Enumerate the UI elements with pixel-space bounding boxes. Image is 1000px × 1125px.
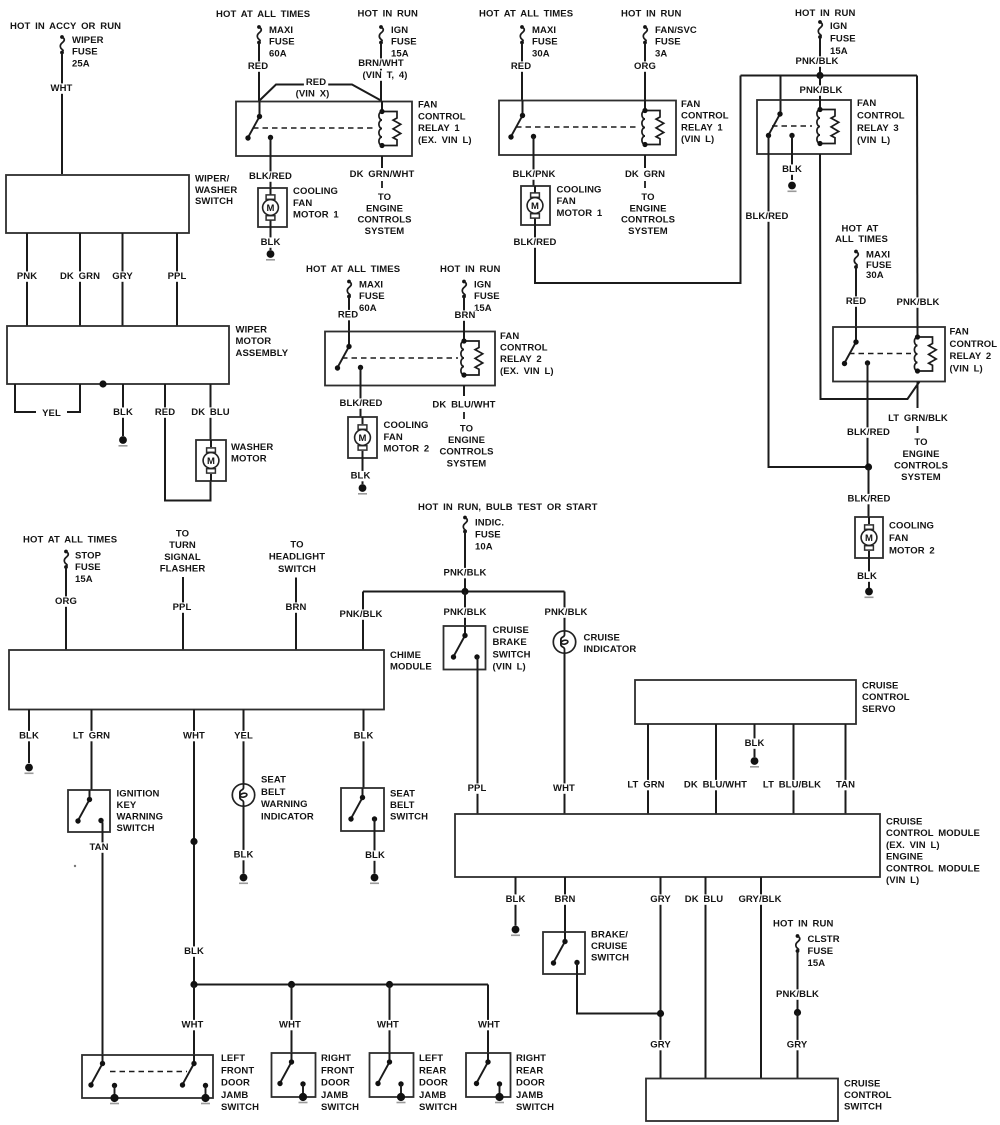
relay 1 dashed link [253,127,376,129]
svg-text:HOT AT ALL TIMES: HOT AT ALL TIMES [216,9,310,20]
svg-text:MOTOR: MOTOR [236,336,272,347]
svg-text:LEFT: LEFT [419,1053,443,1064]
svg-text:60A: 60A [359,303,377,314]
svg-text:PNK/BLK: PNK/BLK [776,989,819,1000]
svg-text:FUSE: FUSE [72,47,98,58]
svg-text:RELAY 3: RELAY 3 [857,123,899,134]
wire RED to washer motor [153,384,211,501]
junction PNK/BLK-GRY [794,1009,801,1016]
svg-text:GRY: GRY [112,271,133,282]
junction rail at left rear [386,981,393,988]
net: TO ENGINE CONTROLS SYSTEM [357,192,411,237]
svg-text:ENGINE: ENGINE [448,435,485,446]
fuse: CLSTR FUSE 15A [796,934,840,969]
relay: FAN CONTROL RELAY 2 (VIN L) box [833,327,945,382]
left front jamb switch contacts A [88,1055,119,1104]
svg-text:TO: TO [460,423,473,434]
svg-text:HEADLIGHT: HEADLIGHT [269,552,325,563]
relay 2 dashed link [342,357,458,359]
label SEAT BELT SWITCH [390,788,428,822]
label COOLING FAN MOTOR 2 [384,420,430,455]
svg-text:CRUISE: CRUISE [584,633,621,644]
junction PNK/BLK rail [816,72,823,79]
svg-text:RELAY 1: RELAY 1 [418,123,460,134]
svg-text:IGNITION: IGNITION [117,789,160,800]
svg-text:(VIN L): (VIN L) [493,662,526,673]
wire WHT to left front door jamb switch [180,985,206,1056]
wire BLK door jamb rail [194,984,488,986]
svg-text:ALL TIMES: ALL TIMES [835,234,888,245]
svg-text:IGN: IGN [830,21,847,32]
svg-text:SWITCH: SWITCH [278,564,316,575]
ground below seat belt indicator [240,874,248,882]
seat belt switch contacts [348,788,377,822]
svg-text:LT GRN: LT GRN [73,731,110,742]
motor: WASHER MOTOR [196,440,226,481]
label COOLING FAN MOTOR 2 (VIN L) [889,521,935,557]
wire DK BLU/WHT servo to module [682,724,749,814]
svg-text:GRY: GRY [650,894,671,905]
svg-text:BELT: BELT [390,800,415,811]
svg-text:HOT AT ALL TIMES: HOT AT ALL TIMES [23,535,117,546]
svg-text:BLK: BLK [782,164,802,175]
junction on WHT wire [190,838,197,845]
label BRAKE/CRUISE SWITCH [591,930,629,964]
wire BLK motor 2 to ground [855,558,879,588]
svg-text:M: M [865,533,873,544]
wire PNK/BLK to chime module [338,592,385,651]
relay: FAN CONTROL RELAY 3 (VIN L) box [757,100,851,154]
svg-text:WIPER: WIPER [236,324,268,335]
svg-text:(EX. VIN L): (EX. VIN L) [886,840,940,851]
wire RED to relay 2 switch (ex vin l) [336,297,360,332]
fuse: WIPER FUSE 25A [60,35,104,69]
wire BLK/RED to cooling fan motor 2 [846,467,893,517]
svg-text:JAMB: JAMB [419,1090,446,1101]
svg-text:10A: 10A [475,542,493,553]
svg-text:(VIN L): (VIN L) [886,875,919,886]
node: TO TURN SIGNAL FLASHER [160,529,206,575]
relay 2L dashed link [849,353,911,355]
svg-text:(EX. VIN L): (EX. VIN L) [500,366,554,377]
svg-text:DK BLU: DK BLU [685,894,724,905]
svg-text:SWITCH: SWITCH [321,1102,359,1113]
svg-text:FUSE: FUSE [475,530,501,541]
svg-text:FAN: FAN [889,533,908,544]
label CRUISE BRAKE SWITCH (VIN L) [493,625,531,673]
svg-text:TURN: TURN [169,540,196,551]
wire PNK/BLK from clstr fuse [774,951,821,1013]
svg-text:HOT IN RUN: HOT IN RUN [795,8,855,19]
svg-text:DK GRN: DK GRN [625,169,665,180]
svg-text:FUSE: FUSE [808,946,834,957]
relay: FAN CONTROL RELAY 2 (EX. VIN L) box [325,332,495,386]
wire LT BLU/BLK servo to module [761,724,824,814]
svg-text:PPL: PPL [173,602,192,613]
svg-text:60A: 60A [269,48,287,59]
svg-text:DOOR: DOOR [419,1078,448,1089]
svg-text:MOTOR 1: MOTOR 1 [557,208,603,219]
svg-text:DOOR: DOOR [321,1078,350,1089]
junction rail at left front wire [190,981,197,988]
wire DK GRN [58,233,102,326]
label LEFT REAR DOOR JAMB SWITCH [419,1053,457,1113]
cruise brake switch contacts [451,626,480,660]
wire to relay 3 switch [780,76,782,115]
svg-text:(VIN L): (VIN L) [681,134,714,145]
svg-text:BLK: BLK [261,237,281,248]
wire PNK/BLK from indic fuse [442,532,489,592]
cruise control servo box [635,680,856,724]
svg-text:HOT IN ACCY OR RUN: HOT IN ACCY OR RUN [10,21,121,32]
svg-text:MOTOR 2: MOTOR 2 [384,444,430,455]
svg-text:BLK/RED: BLK/RED [848,494,891,505]
svg-text:JAMB: JAMB [516,1090,543,1101]
svg-text:SIGNAL: SIGNAL [164,552,201,563]
svg-text:SEAT: SEAT [390,788,415,799]
cruise control module box [455,814,880,877]
label RIGHT REAR DOOR JAMB SWITCH [516,1053,554,1113]
svg-text:MOTOR 2: MOTOR 2 [889,546,935,557]
wire WHT to right rear door jamb switch [476,985,502,1054]
wire BLK/PNK to cooling fan motor 1 [511,137,558,187]
brake/cruise switch contacts [551,932,580,966]
svg-text:BLK/PNK: BLK/PNK [513,169,556,180]
svg-text:LT GRN/BLK: LT GRN/BLK [888,413,948,424]
svg-text:SWITCH: SWITCH [221,1102,259,1113]
svg-text:BLK: BLK [857,571,877,582]
node: TO HEADLIGHT SWITCH [269,539,325,575]
svg-text:FUSE: FUSE [655,37,681,48]
svg-text:FAN: FAN [950,327,969,338]
wire PPL [166,233,189,326]
svg-text:PNK/BLK: PNK/BLK [444,607,487,618]
svg-text:CONTROL: CONTROL [844,1090,892,1101]
wire LT GRN servo to module [625,724,667,814]
ground below chime [25,764,33,772]
svg-text:TO: TO [641,192,654,203]
svg-text:FAN: FAN [681,99,700,110]
svg-text:ENGINE: ENGINE [629,203,666,214]
right front jamb switch contacts [277,1053,307,1103]
motor: COOLING FAN MOTOR 1 (VIN L) [521,186,550,225]
switch: RIGHT REAR DOOR JAMB SWITCH box [466,1053,511,1097]
svg-text:FUSE: FUSE [269,37,295,48]
svg-text:IGN: IGN [391,25,408,36]
svg-text:DOOR: DOOR [516,1078,545,1089]
svg-text:SWITCH: SWITCH [493,649,531,660]
svg-text:WHT: WHT [182,1020,204,1031]
wire LT GRN to ignition key warning switch [71,710,113,791]
switch: CRUISE BRAKE SWITCH (VIN L) box [444,626,486,670]
svg-text:SERVO: SERVO [862,704,896,715]
svg-text:WHT: WHT [51,83,73,94]
svg-text:BRAKE: BRAKE [493,637,527,648]
svg-text:LT BLU/BLK: LT BLU/BLK [763,780,821,791]
wire WHT chime to door jamb switches [181,710,207,985]
svg-text:FRONT: FRONT [221,1065,254,1076]
ground below relay 3 [788,182,796,190]
wire BRN to relay 2 coil [453,297,478,332]
left rear jamb switch contacts [375,1053,405,1103]
svg-text:ENGINE: ENGINE [902,449,939,460]
fuse: MAXI FUSE 30A (relay 2 VIN L) [854,250,892,282]
svg-text:DK GRN: DK GRN [60,271,100,282]
svg-text:RED: RED [306,77,326,88]
relay 2L coil [914,327,936,374]
svg-text:RED: RED [155,407,175,418]
svg-text:BLK/RED: BLK/RED [249,171,292,182]
svg-text:PNK/BLK: PNK/BLK [897,297,940,308]
svg-text:JAMB: JAMB [221,1090,248,1101]
svg-text:(VIN T, 4): (VIN T, 4) [362,70,407,81]
svg-text:CONTROL: CONTROL [681,111,729,122]
svg-text:BLK/RED: BLK/RED [514,237,557,248]
svg-text:CONTROL: CONTROL [500,343,548,354]
svg-text:SYSTEM: SYSTEM [628,226,668,237]
svg-text:FAN: FAN [293,198,312,209]
net: TO ENGINE CONTROLS SYSTEM 3 [894,437,948,483]
wire PNK/BLK rail [741,75,918,77]
wire BLK/RED to cooling fan motor 2 [338,368,385,418]
wire BRN/WHT (VIN T, 4) [356,43,410,101]
left front jamb dashed link [110,1071,187,1073]
wire BLK servo to ground [743,724,767,757]
fuse: FAN/SVC FUSE 3A [643,25,697,59]
svg-text:CONTROL: CONTROL [950,339,998,350]
svg-text:CRUISE: CRUISE [493,625,530,636]
wire DK BLU to washer motor [189,384,231,440]
svg-text:ENGINE: ENGINE [366,203,403,214]
svg-text:IGN: IGN [474,280,491,291]
wire RED from maxi fuse [246,43,270,101]
svg-text:MAXI: MAXI [359,280,383,291]
svg-text:FUSE: FUSE [830,34,856,45]
svg-text:SYSTEM: SYSTEM [901,472,941,483]
net: TO ENGINE CONTROLS SYSTEM 4 [439,423,493,469]
svg-text:WHT: WHT [279,1020,301,1031]
wire PNK/BLK to relay 3 coil [798,76,845,110]
wire GRY to cruise control switch [785,1013,810,1079]
wire BLK motor to ground [349,458,373,484]
svg-text:INDICATOR: INDICATOR [584,644,637,655]
wire YEL to seat belt warning indicator [232,710,255,785]
switch: SEAT BELT SWITCH box [341,788,384,831]
chime module box [9,650,384,710]
svg-text:30A: 30A [866,270,884,281]
wire WHT to right front door jamb switch [277,985,303,1054]
wiper/washer switch box [6,175,189,233]
wire ORG to chime module [53,567,79,650]
junction BLK/RED [865,463,872,470]
svg-text:RED: RED [338,310,358,321]
wire BLK/RED from relay 3 switch [744,137,869,468]
speck [74,865,76,867]
relay 1L dashed link [516,126,639,128]
switch: IGNITION KEY WARNING SWITCH box [68,790,110,832]
wire DK GRN to engine controls [623,155,667,189]
svg-text:PNK/BLK: PNK/BLK [545,607,588,618]
wire PNK [15,233,39,326]
label CRUISE CONTROL MODULE / ENGINE CONTROL MODULE [886,817,980,887]
switch: RIGHT FRONT DOOR JAMB SWITCH box [272,1053,316,1097]
wire ORG from fan/svc fuse [632,43,658,101]
label SEAT BELT WARNING INDICATOR [261,775,314,823]
svg-text:HOT AT ALL TIMES: HOT AT ALL TIMES [306,264,400,275]
svg-text:HOT IN RUN: HOT IN RUN [358,9,418,20]
svg-text:HOT AT ALL TIMES: HOT AT ALL TIMES [479,9,573,20]
relay 1 switch [245,102,273,141]
label CRUISE INDICATOR [584,633,637,656]
svg-text:RED: RED [248,61,268,72]
svg-text:WHT: WHT [183,731,205,742]
svg-text:M: M [266,203,274,214]
label COOLING FAN MOTOR 1 (VIN L) [557,185,603,220]
svg-text:COOLING: COOLING [889,521,934,532]
svg-text:INDICATOR: INDICATOR [261,811,314,822]
wire from brake/cruise switch to GRY junction [577,963,661,1014]
svg-text:CONTROL: CONTROL [857,110,905,121]
switch: LEFT FRONT DOOR JAMB SWITCH box [82,1055,213,1098]
svg-text:30A: 30A [532,48,550,59]
wire BLK/RED to cooling fan motor 1 [247,138,294,189]
wire DK BLU/WHT to engine controls [431,386,498,423]
relay 1L switch [508,101,536,140]
svg-text:BRAKE/: BRAKE/ [591,930,628,941]
svg-text:RELAY 2: RELAY 2 [950,351,992,362]
svg-text:MAXI: MAXI [269,25,293,36]
wire GRY [110,233,135,326]
wire BLK to seat belt switch [352,710,376,789]
svg-text:HOT IN RUN: HOT IN RUN [621,9,681,20]
ignition key warning switch contacts [75,790,103,824]
wire PNK/BLK right branch to relay 2 coil [895,76,942,328]
ground below seat belt switch [371,874,379,882]
wire PNK/BLK to cruise indicator [543,592,590,632]
svg-text:ASSEMBLY: ASSEMBLY [236,348,289,359]
svg-text:TO: TO [176,529,189,540]
svg-text:CRUISE: CRUISE [862,681,899,692]
svg-text:HOT IN RUN: HOT IN RUN [773,919,833,930]
svg-text:PNK/BLK: PNK/BLK [340,609,383,620]
label WIPER MOTOR ASSEMBLY [236,324,289,359]
svg-text:TAN: TAN [836,780,855,791]
svg-text:CONTROLS: CONTROLS [357,215,411,226]
svg-text:COOLING: COOLING [293,186,338,197]
label WASHER MOTOR [231,442,273,465]
motor: COOLING FAN MOTOR 2 [348,417,377,458]
svg-text:SWITCH: SWITCH [844,1102,882,1113]
wire BLK/RED route to fan control relay 3 [512,76,741,284]
svg-text:ENGINE: ENGINE [886,852,923,863]
svg-text:CONTROL: CONTROL [418,111,466,122]
wire BLK indicator to ground [232,806,256,874]
net: TO ENGINE CONTROLS SYSTEM 2 [621,192,675,237]
svg-text:RIGHT: RIGHT [321,1053,351,1064]
svg-text:25A: 25A [72,58,90,69]
wire BLK module to ground [504,877,528,926]
svg-text:REAR: REAR [419,1065,446,1076]
svg-text:BLK: BLK [506,894,526,905]
wire GRY/BLK module to cruise control switch [736,877,783,1079]
wire BLK chime to ground [17,710,41,764]
wire BLK to ground [259,227,283,250]
svg-text:DOOR: DOOR [221,1078,250,1089]
relay 1L coil [642,100,664,147]
svg-text:MODULE: MODULE [390,662,432,673]
svg-text:BLK: BLK [745,738,765,749]
wire PPL to chime module [171,577,194,650]
fuse: MAXI FUSE 60A [257,25,295,59]
wire GRY module to cruise control switch [648,877,673,1079]
svg-text:RIGHT: RIGHT [516,1053,546,1064]
svg-text:SWITCH: SWITCH [195,196,233,207]
svg-text:BLK: BLK [351,471,371,482]
junction GRY [657,1010,664,1017]
svg-text:WIPER/: WIPER/ [195,174,230,185]
svg-text:STOP: STOP [75,551,102,562]
fuse: MAXI FUSE 30A [520,25,558,59]
switch: BRAKE/CRUISE SWITCH box [543,932,585,974]
wire RED to relay 2 switch [844,267,868,327]
label CRUISE CONTROL SWITCH [844,1079,892,1113]
wire DK BLU module to cruise control switch [683,877,725,1079]
svg-text:CRUISE: CRUISE [886,817,923,828]
svg-text:SWITCH: SWITCH [591,953,629,964]
svg-text:M: M [207,456,215,467]
relay 3 dashed link [772,125,812,127]
svg-text:HOT IN RUN: HOT IN RUN [440,264,500,275]
fuse: IGN FUSE 15A (relay 2) [462,280,500,314]
wire PNK/BLK distribution rail [363,591,565,593]
svg-text:REAR: REAR [516,1065,543,1076]
svg-text:M: M [531,201,539,212]
wire TAN to left front door jamb switch [87,821,111,1056]
svg-text:BRN: BRN [286,602,307,613]
svg-text:GRY: GRY [650,1040,671,1051]
svg-text:FUSE: FUSE [474,291,500,302]
wire BLK seat belt switch to ground [363,819,387,874]
label FAN CONTROL RELAY 3 (VIN L) [857,98,905,146]
svg-text:BRN/WHT: BRN/WHT [358,58,404,69]
svg-text:PPL: PPL [168,271,187,282]
svg-text:(VIN L): (VIN L) [857,135,890,146]
svg-text:WHT: WHT [478,1020,500,1031]
svg-text:DK BLU/WHT: DK BLU/WHT [432,400,495,411]
svg-text:(VIN L): (VIN L) [950,363,983,374]
svg-text:MOTOR 1: MOTOR 1 [293,210,339,221]
svg-text:RELAY 2: RELAY 2 [500,354,542,365]
svg-text:HOT AT: HOT AT [842,224,879,235]
svg-text:WARNING: WARNING [261,799,308,810]
svg-text:BLK: BLK [354,731,374,742]
svg-text:BLK: BLK [234,850,254,861]
svg-text:PNK/BLK: PNK/BLK [800,85,843,96]
junction on wiper motor assembly [99,380,106,387]
lamp: CRUISE INDICATOR [553,631,575,653]
label LEFT FRONT DOOR JAMB SWITCH [221,1053,259,1113]
svg-text:FAN: FAN [500,331,519,342]
svg-text:SWITCH: SWITCH [516,1102,554,1113]
ground below module [512,926,520,934]
relay 2 switch [335,332,363,371]
svg-text:FAN: FAN [418,100,437,111]
svg-text:BLK/RED: BLK/RED [746,211,789,222]
fuse: STOP FUSE 15A [64,550,102,585]
fuse: IGN FUSE 15A [379,25,417,59]
relay: FAN CONTROL RELAY 1 (EX. VIN L) box [236,102,412,157]
label WIPER/WASHER SWITCH [195,174,237,208]
